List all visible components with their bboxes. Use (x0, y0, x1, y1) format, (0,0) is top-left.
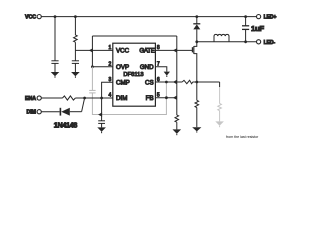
ground (71, 72, 80, 78)
svg-text:FB: FB (146, 95, 154, 102)
node cap C5 bottom (244, 40, 247, 43)
svg-text:LED-: LED- (264, 40, 276, 46)
wire lower LED rail (197, 41, 257, 43)
wire DIM node down (101, 98, 103, 121)
node rail-C1 (54, 15, 57, 18)
wire R1 to C2 (74, 42, 76, 60)
svg-text:1N4148: 1N4148 (54, 121, 78, 130)
svg-text:DF6113: DF6113 (123, 72, 143, 78)
terminal VCC (25, 15, 41, 21)
svg-text:GATE: GATE (139, 48, 154, 55)
wire C2 to ground (74, 63, 76, 72)
junction arrow on C3 wire (98, 112, 102, 116)
wire corner to grey R6 (219, 82, 221, 87)
wire CS row (155, 81, 182, 83)
wire R2 to DIM pin (75, 97, 112, 99)
ground (97, 127, 106, 133)
diode D2 (to VCC rail) (193, 15, 200, 42)
wire diode out (70, 111, 82, 113)
wire GATE pin8 to Q1 (155, 49, 192, 51)
ground (192, 127, 201, 132)
inductor L1 (214, 34, 229, 41)
node cap C5 top (244, 15, 247, 18)
resistor R3 (182, 80, 193, 83)
wire source down (196, 82, 198, 100)
svg-text:1: 1 (109, 45, 112, 51)
capacitor C5 1uF (242, 17, 249, 42)
svg-text:LED+: LED+ (264, 15, 277, 21)
capacitor C3 (98, 121, 105, 124)
terminal LED+ (257, 15, 277, 21)
resistor R5 on loop line (175, 115, 179, 122)
wire C1 branch (54, 17, 56, 61)
ground (173, 129, 182, 135)
capacitor C2 (72, 61, 79, 64)
svg-text:CMP: CMP (116, 80, 130, 87)
svg-text:ENA: ENA (25, 96, 36, 102)
svg-text:GND: GND (140, 64, 154, 71)
node OVP corner (91, 65, 94, 68)
resistor R6 (grey) (218, 87, 222, 121)
wire CMP bracket (102, 82, 113, 98)
svg-text:VCC: VCC (25, 15, 36, 21)
wire R3 to source node (193, 81, 220, 83)
resistor R2 (63, 96, 76, 100)
capacitor C1 (51, 61, 58, 64)
node source (195, 81, 198, 84)
ground (grey) (215, 121, 224, 127)
junction arrow gate (173, 48, 177, 52)
svg-text:2: 2 (109, 62, 112, 68)
wire OVP loop vertical left (91, 36, 93, 67)
wire R1C2 node to pin 1 (75, 49, 112, 51)
wire R1 top (74, 17, 76, 35)
wire ENA to R2 (41, 97, 63, 99)
junction arrow FB (173, 96, 177, 100)
transistor Q1 NMOS (192, 42, 196, 82)
wire GND pin7 (155, 67, 166, 72)
svg-text:CS: CS (145, 80, 154, 87)
terminal ENA (25, 96, 41, 102)
node DIM cap (100, 97, 103, 100)
wire R5 to ground (176, 122, 178, 129)
capacitor C4 (grey) (89, 89, 95, 91)
svg-text:DIM: DIM (26, 110, 36, 116)
wire C3 to ground (101, 123, 103, 127)
wire DIM to diode (41, 111, 60, 113)
wire R4 to ground (196, 108, 198, 128)
wire to pin 2 OVP (92, 66, 112, 68)
node FB (165, 96, 168, 99)
grey wire down and across (92, 82, 166, 114)
wire loop top over IC (92, 35, 176, 37)
svg-text:from the last resistor: from the last resistor (226, 135, 259, 139)
wire FB row (155, 97, 176, 99)
node drain/diode (195, 40, 198, 43)
terminal LED- (257, 40, 276, 46)
grey compensation wire from OVP node down (89, 67, 166, 115)
IC U1 DF6113 (109, 43, 160, 106)
wire top VCC rail (41, 16, 257, 18)
resistor R1 (74, 35, 78, 42)
wire C1 to ground (54, 63, 56, 72)
wire diagonal to ENA node (82, 98, 85, 112)
node diode join (83, 97, 86, 100)
svg-text:OVP: OVP (116, 64, 129, 71)
resistor R4 (195, 100, 199, 107)
svg-text:1uF: 1uF (251, 24, 264, 33)
terminal DIM (26, 110, 41, 116)
node CS grey tap (165, 81, 168, 84)
junction arrow at VCC loop (89, 48, 93, 52)
svg-text:VCC: VCC (116, 48, 130, 55)
node rail-R1 (74, 15, 77, 18)
ground (51, 72, 60, 78)
wire loop vertical right (176, 36, 178, 115)
svg-text:DIM: DIM (116, 95, 127, 102)
junction arrow CS (173, 80, 177, 84)
ground pin7 arrow (164, 72, 170, 77)
diode D1 1N4148 (60, 108, 69, 116)
